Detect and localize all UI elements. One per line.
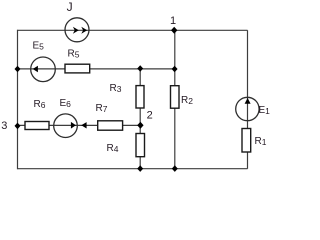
svg-text:R5: R5 [68,48,80,59]
svg-text:J: J [67,0,73,14]
svg-text:E6: E6 [60,98,72,109]
resistor R3 [136,86,144,108]
node 3 dot [15,123,21,130]
resistor R1 [242,129,251,153]
wire top [18,29,248,31]
resistor R2 [171,86,180,109]
resistor R7 [98,121,123,130]
wire arrow toward E6 [81,122,86,128]
emf source E5 [31,57,56,82]
svg-text:R1: R1 [255,136,267,147]
svg-text:2: 2 [147,110,153,122]
node dot right bottom [172,165,178,172]
node dot mid bottom [137,165,143,172]
wire bottom [18,168,248,170]
svg-text:R4: R4 [107,143,119,154]
svg-text:R3: R3 [110,83,122,94]
resistor R6 [25,122,49,130]
wire row node3 to node 2 level [18,68,175,70]
wire row E6 R7 [18,124,141,126]
wire middle column R3 R4 [139,68,141,168]
node 1 dot [171,27,177,34]
svg-text:1: 1 [170,15,176,27]
svg-text:3: 3 [1,120,7,132]
node dot mid row1 [137,65,143,72]
resistor R4 [136,134,145,157]
emf source E1 [236,97,259,120]
svg-text:E1: E1 [259,105,271,116]
wire column R2 [174,30,176,168]
svg-text:R6: R6 [34,99,46,110]
wire left [17,30,19,170]
emf source E6 [54,114,78,138]
node 2 dot [137,122,143,129]
node dot right row1 [172,66,178,73]
resistor R5 [65,64,90,73]
svg-text:E5: E5 [33,41,45,52]
current source J [65,18,89,42]
svg-text:R2: R2 [181,95,193,106]
svg-text:R7: R7 [96,103,108,114]
node dot left row1 [15,66,21,73]
wire right [247,30,249,168]
